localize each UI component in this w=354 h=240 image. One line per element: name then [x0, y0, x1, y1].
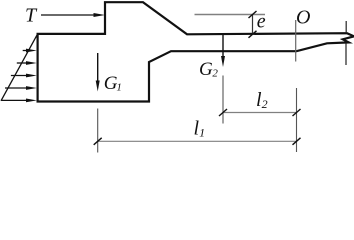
spindle axis upper segment at break — [345, 21, 347, 33]
distributed load arrow 1 — [23, 49, 37, 53]
distributed load hypotenuse — [1, 34, 38, 101]
dimension line l2 — [223, 112, 297, 114]
dimension e vertical line — [252, 15, 254, 35]
svg-text:O: O — [296, 7, 310, 29]
svg-text:T: T — [25, 5, 38, 27]
tick at bottom of e — [249, 31, 257, 38]
force G2 arrow — [221, 35, 225, 67]
tick at right of l1 — [293, 138, 301, 145]
eccentricity extension line (top) — [195, 14, 266, 16]
force T arrow — [41, 13, 105, 17]
svg-text:G2: G2 — [199, 59, 218, 80]
tick at right of l2 — [293, 109, 301, 116]
l1 left extension line — [97, 109, 99, 153]
tick at top of e — [249, 11, 257, 18]
beam outline (machine body profile with break at right) — [38, 2, 354, 101]
distributed load arrow 2 — [17, 61, 37, 65]
tick at left of l1 — [94, 138, 102, 145]
distributed load arrow 5 — [1, 99, 36, 103]
svg-text:e: e — [257, 11, 266, 33]
right extension line (shared by l1 and l2) — [296, 88, 298, 152]
spindle axis lower segment at break — [345, 44, 347, 66]
distributed load arrow 3 — [11, 74, 37, 78]
point O axis line — [295, 20, 297, 62]
l2 left extension line — [222, 76, 224, 124]
distributed load arrow 4 — [5, 86, 37, 90]
force G1 arrow — [96, 53, 100, 92]
svg-text:l1: l1 — [194, 118, 206, 140]
dimension line l1 — [98, 140, 297, 142]
svg-text:G1: G1 — [104, 73, 122, 94]
svg-text:l2: l2 — [256, 89, 268, 111]
tick at left of l2 — [219, 109, 227, 116]
